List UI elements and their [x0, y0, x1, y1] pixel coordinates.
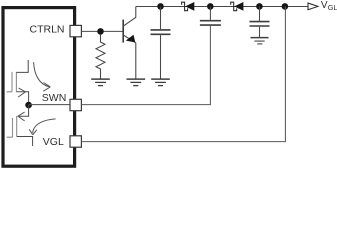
diode D2 triangle — [234, 2, 243, 11]
pin CTRLN box — [70, 25, 81, 36]
wire CTRLN pin to base — [81, 30, 123, 32]
svg-text:GL: GL — [328, 3, 337, 12]
pin VGL box — [70, 136, 81, 147]
transistor Q1 emitter arrow — [126, 35, 136, 43]
node A junction dot — [97, 28, 104, 35]
diode D2 (Schottky) cathode bar — [231, 2, 237, 11]
node D junction dot — [256, 3, 263, 10]
diode D1 (Schottky) cathode bar — [182, 2, 188, 11]
transistor Q1 collector — [123, 7, 136, 27]
transistor M2 source lead — [17, 137, 33, 147]
transistor M1 channel — [15, 72, 17, 92]
curved current arrow 1 — [34, 62, 50, 87]
transistor M2 (low-side internal FET) drain lead — [18, 105, 29, 116]
transistor M1 drain lead — [16, 60, 28, 72]
wire top rail — [136, 6, 308, 8]
transistor M2 gate — [7, 118, 13, 137]
ground G4 — [251, 37, 269, 39]
curved current arrow 2 — [33, 119, 56, 133]
ground G3 — [151, 79, 170, 86]
transistor M2 drain arrow — [18, 112, 25, 121]
node B junction dot — [157, 3, 164, 10]
transistor M2 channel — [16, 116, 18, 137]
transistor M1 (high-side internal FET) gate — [7, 72, 12, 92]
diode D1 triangle — [185, 2, 194, 11]
transistor Q1 base bar — [122, 20, 124, 43]
resistor R1 — [96, 34, 105, 79]
svg-text:SWN: SWN — [42, 92, 67, 104]
node SWN junction dot — [25, 102, 32, 109]
capacitor C2 (flying) — [209, 7, 211, 20]
node E junction dot — [282, 3, 289, 10]
wire SWN to C2 — [81, 26, 210, 105]
ground G1 — [91, 79, 110, 86]
ground G2 — [127, 79, 146, 86]
pin SWN box — [70, 99, 81, 110]
transistor M1 source arrow — [18, 88, 25, 97]
transistor M1 source lead — [16, 92, 28, 105]
wire SWN internal — [29, 104, 70, 106]
capacitor C3 (output) — [259, 7, 261, 21]
output arrow VGL — [308, 3, 318, 10]
svg-text:VGL: VGL — [43, 136, 64, 148]
transistor Q1 emitter — [123, 35, 136, 79]
svg-text:CTRLN: CTRLN — [29, 24, 64, 36]
IC U1 body — [3, 8, 75, 167]
node C junction dot — [207, 3, 214, 10]
wire VGL pin to node E — [81, 7, 285, 142]
capacitor C1 — [160, 7, 162, 30]
